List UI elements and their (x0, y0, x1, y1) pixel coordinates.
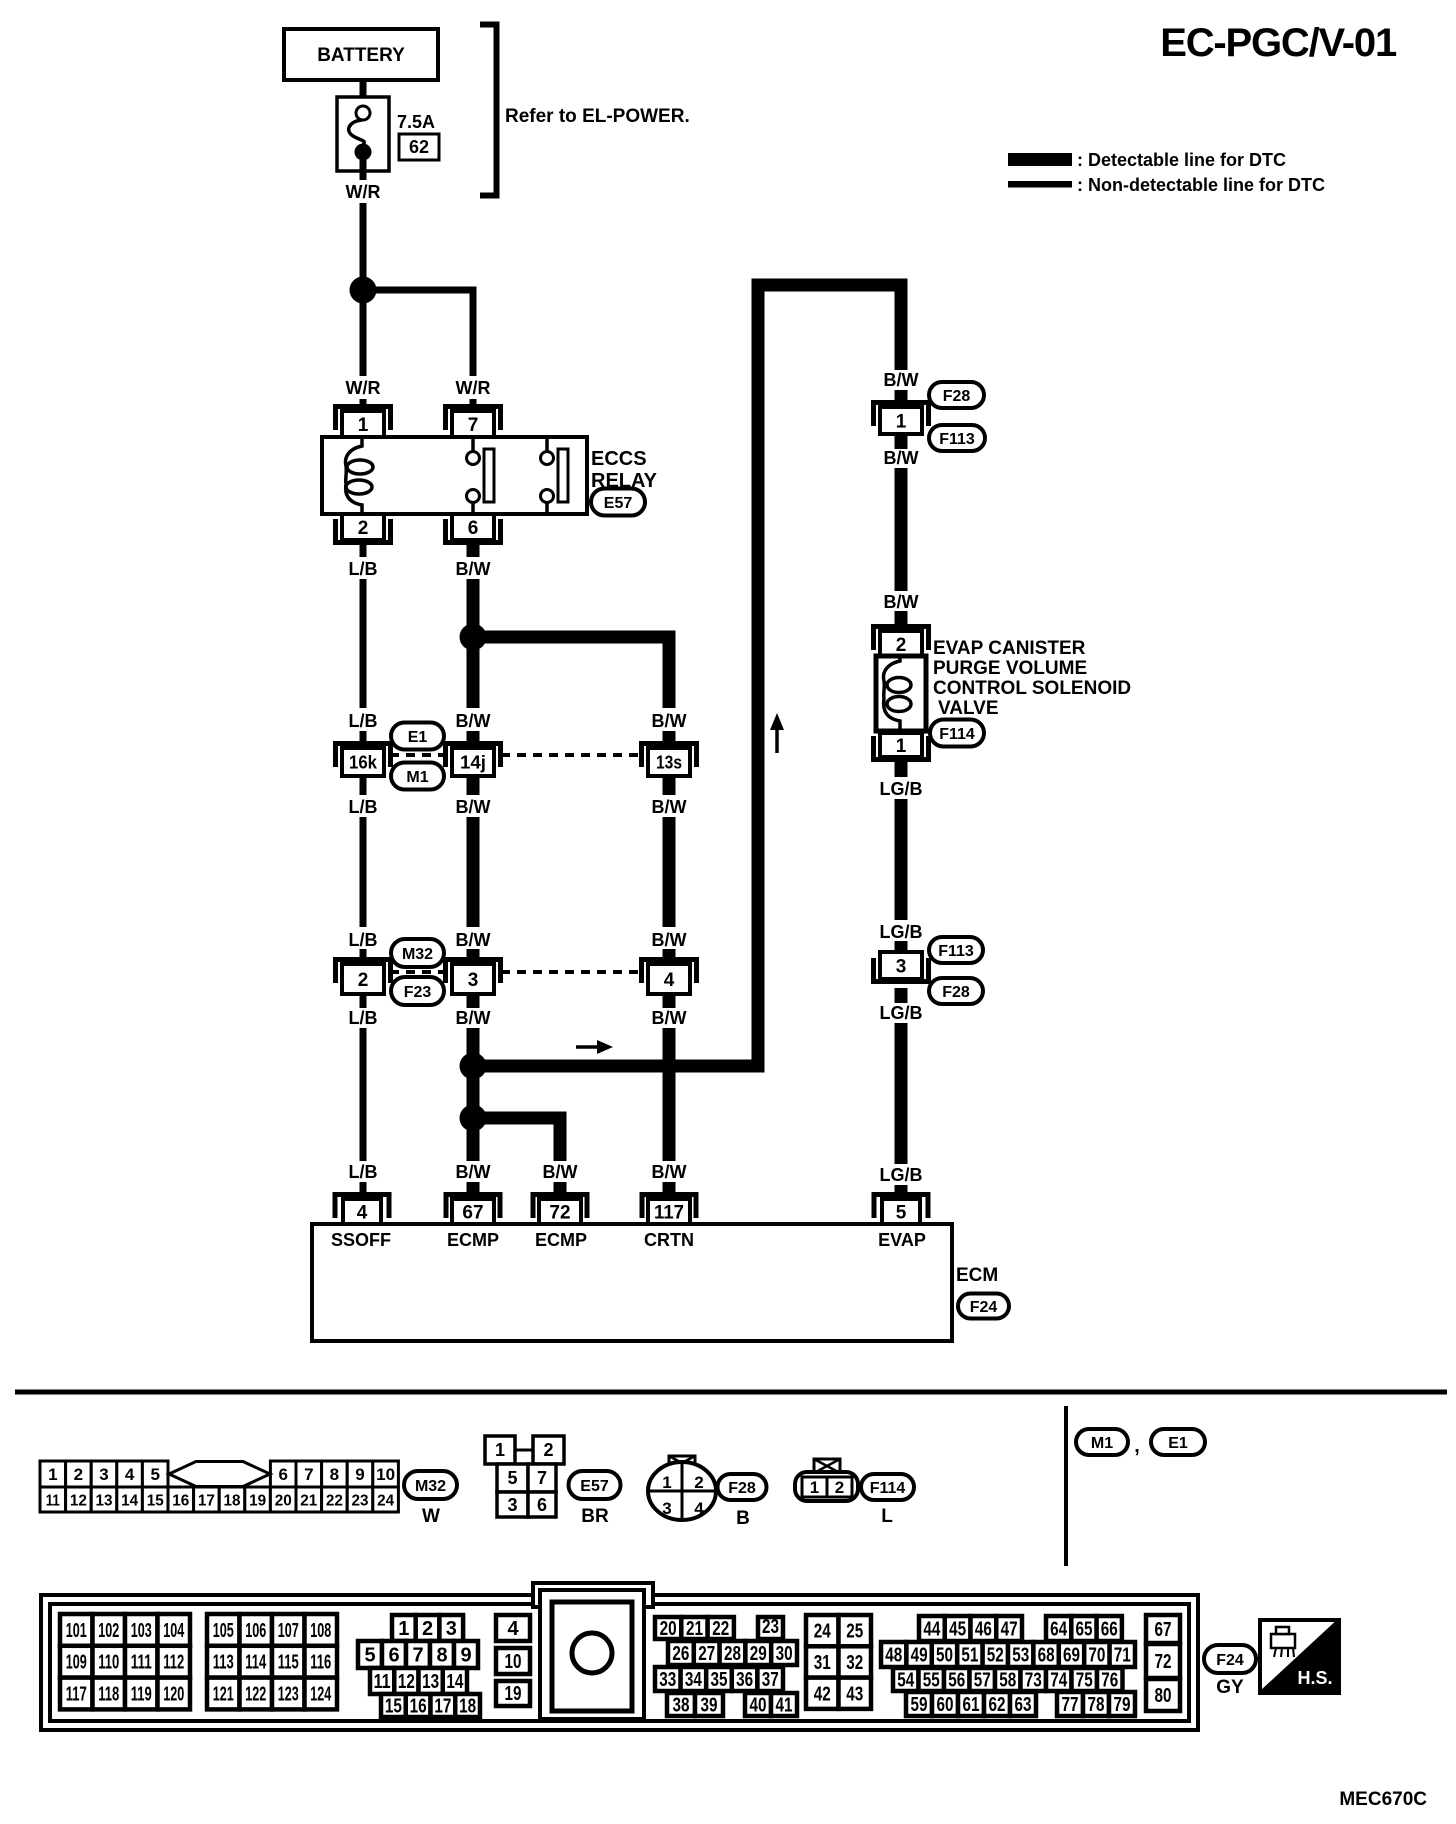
label B/W (884, 592, 919, 612)
svg-text:19: 19 (505, 1683, 522, 1705)
svg-text:21: 21 (300, 1493, 317, 1510)
arrow up on right loop (770, 713, 784, 753)
dashed line 16k to 14j (390, 753, 446, 757)
wire B/W long (467, 817, 480, 927)
svg-text:110: 110 (98, 1652, 119, 1674)
svg-text:36: 36 (736, 1669, 753, 1691)
svg-text:B/W: B/W (884, 592, 919, 612)
dashed line 14j to 13s (501, 753, 641, 757)
svg-text:B/W: B/W (456, 1008, 491, 1028)
svg-text:18: 18 (459, 1696, 476, 1718)
svg-text:102: 102 (98, 1620, 119, 1642)
svg-text:L/B: L/B (349, 559, 378, 579)
junction node B/W to ECMP 72 (460, 1105, 487, 1132)
oval M1 (391, 763, 444, 790)
svg-text:EVAP CANISTER: EVAP CANISTER (933, 638, 1086, 659)
svg-text:F113: F113 (939, 431, 975, 448)
label B/W (456, 930, 491, 950)
svg-text:104: 104 (163, 1620, 185, 1642)
label ECM (956, 1265, 998, 1286)
oval M1 bottom (1076, 1429, 1128, 1455)
svg-text:M32: M32 (415, 1478, 446, 1495)
connector pin 1 of ECCS relay (336, 407, 391, 438)
svg-text:H.S.: H.S. (1297, 1668, 1332, 1688)
wire B/W below junction (467, 1130, 480, 1161)
svg-text:SSOFF: SSOFF (331, 1230, 391, 1250)
svg-text:M1: M1 (1091, 1435, 1113, 1452)
label B/W (652, 711, 687, 731)
svg-text:2: 2 (835, 1478, 844, 1497)
svg-text:B/W: B/W (456, 930, 491, 950)
separator line (15, 1390, 1447, 1395)
svg-text:2: 2 (694, 1473, 703, 1492)
svg-text:56: 56 (948, 1670, 965, 1692)
svg-text:13: 13 (422, 1671, 439, 1693)
label B/W (652, 797, 687, 817)
label B/W (652, 1162, 687, 1182)
ECM face pin group 1-18 (358, 1615, 480, 1718)
wire L/B long (360, 817, 367, 927)
bracket refer to EL-POWER (480, 25, 690, 196)
svg-text:E1: E1 (1168, 1435, 1188, 1452)
svg-text:3: 3 (507, 1495, 517, 1515)
svg-text:F28: F28 (942, 984, 970, 1001)
wire battery to fuse (360, 78, 367, 108)
wire stub below 13s (663, 776, 676, 795)
label W (422, 1506, 440, 1527)
svg-text:B/W: B/W (884, 448, 919, 468)
svg-text:2: 2 (896, 635, 907, 656)
wire stub to connector 3 (895, 941, 908, 953)
dashed line 2 to 3 (390, 970, 446, 974)
connector face M32 (24-pin) (40, 1461, 398, 1512)
svg-text:72: 72 (1155, 1651, 1172, 1673)
comma (1134, 1435, 1140, 1457)
svg-text:116: 116 (310, 1652, 331, 1674)
svg-text:61: 61 (963, 1694, 980, 1716)
connector 2 M32/F23 (336, 960, 391, 995)
wire stub to 14j (467, 731, 480, 746)
oval F28 bottom (718, 1474, 767, 1500)
ECM face pin column 67/72/80 (1146, 1615, 1180, 1711)
label BR (581, 1506, 609, 1527)
svg-text:18: 18 (224, 1493, 241, 1510)
svg-text:L/B: L/B (349, 930, 378, 950)
svg-text:55: 55 (923, 1670, 940, 1692)
label LG/B (880, 1003, 923, 1023)
svg-text:GY: GY (1216, 1677, 1244, 1698)
svg-text:B/W: B/W (884, 370, 919, 390)
svg-text:47: 47 (1001, 1619, 1018, 1641)
connector 14j (446, 744, 501, 777)
svg-text:37: 37 (762, 1669, 779, 1691)
svg-text:38: 38 (673, 1695, 690, 1717)
wire W/R branch to relay pin 7 (370, 290, 473, 376)
svg-text:1: 1 (358, 415, 369, 436)
connector 1 F28/F113 (874, 403, 929, 435)
svg-text:F28: F28 (728, 1480, 756, 1497)
svg-text:119: 119 (131, 1684, 152, 1706)
svg-text:: Non-detectable line for DTC: : Non-detectable line for DTC (1077, 175, 1325, 195)
wire stub below connector 4 (663, 994, 676, 1008)
svg-text:,: , (1134, 1435, 1140, 1457)
svg-text:45: 45 (949, 1619, 966, 1641)
svg-text:77: 77 (1062, 1694, 1079, 1716)
svg-text:16k: 16k (349, 752, 378, 772)
wire stub below connector 3 (895, 988, 908, 1003)
svg-text:41: 41 (776, 1695, 793, 1717)
wire B/W loop right and up to solenoid feed (480, 285, 901, 1066)
svg-text:2: 2 (543, 1440, 553, 1460)
wire stub below connector 1 (895, 434, 908, 449)
svg-text:7.5A: 7.5A (397, 112, 435, 132)
label LG/B (880, 779, 923, 799)
label B/W (652, 1008, 687, 1028)
title EC-PGC/V-01 (1160, 21, 1397, 65)
svg-text:57: 57 (974, 1670, 991, 1692)
svg-text:7: 7 (537, 1468, 547, 1488)
svg-text:103: 103 (131, 1620, 152, 1642)
svg-text:EC-PGC/V-01: EC-PGC/V-01 (1160, 21, 1397, 65)
oval F24 (958, 1294, 1009, 1319)
svg-text:13: 13 (96, 1493, 113, 1510)
wire W/R to junction (360, 203, 367, 278)
label ECMP (447, 1230, 499, 1250)
svg-text:79: 79 (1114, 1694, 1131, 1716)
svg-text:107: 107 (278, 1620, 299, 1642)
svg-text:B/W: B/W (543, 1162, 578, 1182)
junction node B/W (460, 624, 487, 651)
svg-text:B/W: B/W (456, 797, 491, 817)
svg-text:8: 8 (436, 1645, 447, 1667)
svg-text:B/W: B/W (652, 1162, 687, 1182)
svg-text:1: 1 (398, 1618, 409, 1640)
svg-text:46: 46 (975, 1619, 992, 1641)
svg-text:63: 63 (1015, 1694, 1032, 1716)
wire B/W branch to 13s column (480, 637, 669, 708)
svg-text:21: 21 (686, 1618, 703, 1640)
svg-text:4: 4 (125, 1465, 135, 1484)
svg-text:7: 7 (468, 415, 479, 436)
oval F28 (929, 382, 984, 408)
ECCS relay E57 (322, 437, 587, 514)
dashed line 3 to 4 (501, 970, 641, 974)
label B (736, 1508, 750, 1529)
svg-text:B/W: B/W (456, 1162, 491, 1182)
svg-text:4: 4 (357, 1202, 368, 1223)
svg-text:1: 1 (896, 411, 907, 432)
label L/B (349, 1162, 378, 1182)
label L/B (349, 797, 378, 817)
wire stub to 13s (663, 731, 676, 746)
svg-text:64: 64 (1050, 1619, 1068, 1641)
svg-text:80: 80 (1155, 1685, 1172, 1707)
svg-text:65: 65 (1075, 1619, 1092, 1641)
label EVAP (878, 1230, 926, 1250)
wire stub to ECM pin 117 (663, 1182, 676, 1200)
svg-text:VALVE: VALVE (938, 698, 999, 719)
svg-text:5: 5 (507, 1468, 517, 1488)
svg-text:48: 48 (885, 1645, 902, 1667)
svg-text:114: 114 (245, 1652, 267, 1674)
svg-text:105: 105 (213, 1620, 234, 1642)
label LG/B (880, 922, 923, 942)
svg-text:F113: F113 (938, 943, 974, 960)
label ECCS RELAY (591, 448, 658, 492)
svg-text:3: 3 (468, 970, 479, 991)
svg-text:F24: F24 (970, 1299, 998, 1316)
fuse 7.5A 62 (337, 97, 439, 171)
svg-text:113: 113 (213, 1652, 234, 1674)
oval F113 (929, 425, 985, 451)
svg-text:50: 50 (936, 1645, 953, 1667)
ECM face pin group 24-43 (806, 1615, 871, 1709)
svg-text:B/W: B/W (456, 559, 491, 579)
connector pin 6 of ECCS relay (446, 514, 501, 543)
svg-text:ECM: ECM (956, 1265, 998, 1286)
oval F24 bottom (1204, 1645, 1256, 1673)
oval F114 bottom (861, 1474, 914, 1500)
svg-text:F114: F114 (870, 1480, 906, 1497)
svg-text:W/R: W/R (346, 378, 381, 398)
wire stub below connector 3 (467, 994, 480, 1008)
svg-text:44: 44 (923, 1619, 941, 1641)
svg-text:43: 43 (846, 1683, 863, 1705)
svg-text:W: W (422, 1506, 440, 1527)
svg-text:F24: F24 (1216, 1652, 1244, 1669)
svg-text:22: 22 (712, 1618, 729, 1640)
label B/W (543, 1162, 578, 1182)
wire stub below solenoid (895, 759, 908, 777)
svg-text:108: 108 (310, 1620, 331, 1642)
connector pin 7 of ECCS relay (446, 407, 501, 438)
wire stub below 14j (467, 776, 480, 795)
ECM pin 5 EVAP (874, 1195, 928, 1225)
wire stub to connector 4 (663, 949, 676, 963)
label L/B (349, 1008, 378, 1028)
svg-text:52: 52 (987, 1645, 1004, 1667)
wire L/B long to ECM (360, 1028, 367, 1161)
svg-text:12: 12 (398, 1671, 415, 1693)
junction node W/R (350, 277, 377, 304)
svg-text:121: 121 (213, 1684, 234, 1706)
svg-text:2: 2 (358, 970, 369, 991)
ECM face pin group 44-79 (881, 1616, 1135, 1716)
svg-text:W/R: W/R (346, 182, 381, 202)
svg-text:ECMP: ECMP (535, 1230, 587, 1250)
wire LG/B long (895, 799, 908, 920)
svg-text:E1: E1 (408, 729, 428, 746)
svg-text:32: 32 (846, 1652, 863, 1674)
svg-text:MEC670C: MEC670C (1339, 1789, 1427, 1810)
svg-text:L/B: L/B (349, 1008, 378, 1028)
svg-text:B/W: B/W (456, 711, 491, 731)
connector face F28 (round 4-pin) (648, 1456, 716, 1520)
oval E57 bottom (569, 1471, 621, 1499)
svg-text:3: 3 (99, 1465, 108, 1484)
label SSOFF (331, 1230, 391, 1250)
svg-text:7: 7 (412, 1645, 423, 1667)
wire stub to pin 7 (470, 399, 477, 412)
ECM face center module with circle (540, 1590, 644, 1719)
ECM face pin group 101-120 (60, 1614, 190, 1709)
wire B/W between junctions (467, 1078, 480, 1107)
wire stub to 16k (360, 731, 367, 746)
label L (881, 1506, 893, 1527)
svg-text:B/W: B/W (652, 1008, 687, 1028)
wire stub to ECM pin 4 (360, 1182, 367, 1200)
ECM pin 72 ECMP (533, 1195, 587, 1225)
battery (284, 29, 438, 80)
wire B/W to junction (467, 1028, 480, 1055)
wire B/W branch to ECM pin 72 (480, 1118, 560, 1161)
svg-text:6: 6 (468, 518, 479, 539)
svg-text:CONTROL SOLENOID: CONTROL SOLENOID (933, 678, 1131, 699)
connector 4 (642, 960, 697, 995)
svg-text:117: 117 (66, 1684, 87, 1706)
svg-text:W/R: W/R (456, 378, 491, 398)
svg-text:PURGE VOLUME: PURGE VOLUME (933, 658, 1087, 679)
svg-text:BATTERY: BATTERY (317, 45, 405, 66)
svg-text:75: 75 (1076, 1670, 1093, 1692)
wire stub to pin 1 (360, 399, 367, 412)
svg-text:27: 27 (698, 1643, 715, 1665)
svg-text:68: 68 (1038, 1645, 1055, 1667)
svg-text:31: 31 (814, 1652, 831, 1674)
label W/R below fuse (346, 182, 381, 202)
ECM pin 67 ECMP (446, 1195, 500, 1225)
label MEC670C (1339, 1789, 1427, 1810)
connector 13s (642, 744, 697, 777)
svg-text:F28: F28 (943, 388, 971, 405)
oval F28 lower (929, 978, 983, 1004)
svg-text:35: 35 (711, 1669, 728, 1691)
svg-text:: Detectable line for DTC: : Detectable line for DTC (1077, 150, 1286, 170)
label GY (1216, 1677, 1244, 1698)
svg-text:19: 19 (249, 1493, 266, 1510)
svg-text:15: 15 (385, 1696, 402, 1718)
svg-text:62: 62 (409, 137, 429, 157)
svg-text:51: 51 (961, 1645, 978, 1667)
label EVAP CANISTER PURGE VOLUME CONTROL SOLENOID VALVE (933, 638, 1131, 719)
svg-text:14: 14 (121, 1493, 138, 1510)
svg-text:LG/B: LG/B (880, 779, 923, 799)
wire LG/B long to ECM (895, 1023, 908, 1164)
svg-text:15: 15 (147, 1493, 164, 1510)
svg-text:70: 70 (1088, 1645, 1105, 1667)
svg-text:30: 30 (776, 1643, 793, 1665)
svg-text:39: 39 (701, 1695, 718, 1717)
svg-text:117: 117 (654, 1202, 684, 1223)
svg-text:3: 3 (446, 1618, 457, 1640)
svg-text:ECCS: ECCS (591, 448, 647, 470)
ECM connector face F24 outline (41, 1583, 1198, 1730)
junction node B/W to EVAP loop (460, 1053, 487, 1080)
svg-text:66: 66 (1101, 1619, 1118, 1641)
svg-text:M1: M1 (406, 769, 428, 786)
svg-text:109: 109 (66, 1652, 87, 1674)
svg-text:L/B: L/B (349, 1162, 378, 1182)
svg-text:14j: 14j (460, 752, 486, 772)
H.S. logo (1260, 1620, 1339, 1693)
oval M32 (391, 939, 444, 967)
label W/R left (346, 378, 381, 398)
svg-text:33: 33 (659, 1669, 676, 1691)
svg-text:74: 74 (1050, 1670, 1068, 1692)
svg-text:106: 106 (245, 1620, 266, 1642)
oval E1 bottom (1151, 1429, 1205, 1455)
svg-text:2: 2 (358, 518, 369, 539)
svg-text:E57: E57 (604, 495, 633, 512)
svg-text:60: 60 (937, 1694, 954, 1716)
connector 3 (446, 960, 501, 995)
label L/B (349, 559, 378, 579)
wire L/B below relay pin 2 (360, 545, 367, 557)
svg-text:23: 23 (762, 1616, 779, 1638)
svg-text:ECMP: ECMP (447, 1230, 499, 1250)
oval F113 lower (929, 937, 983, 963)
oval E1 (391, 723, 444, 750)
wire B/W 13s column long to ECM (663, 1028, 676, 1161)
svg-text:118: 118 (98, 1684, 119, 1706)
svg-text:4: 4 (664, 970, 675, 991)
svg-text:B/W: B/W (652, 930, 687, 950)
connector pin 2 of ECCS relay (336, 514, 391, 543)
svg-text:22: 22 (326, 1493, 343, 1510)
svg-text:111: 111 (131, 1652, 152, 1674)
wire B/W below relay pin 6 (467, 545, 480, 557)
svg-text:2: 2 (422, 1618, 433, 1640)
ECM face pin group 105-124 (207, 1614, 337, 1709)
svg-text:3: 3 (662, 1499, 671, 1518)
svg-text:24: 24 (814, 1621, 832, 1643)
svg-text:B/W: B/W (652, 711, 687, 731)
label B/W (456, 1008, 491, 1028)
label B/W (884, 448, 919, 468)
label B/W (456, 711, 491, 731)
divider line (1064, 1406, 1068, 1566)
wire B/W long (663, 817, 676, 927)
svg-text:24: 24 (377, 1493, 394, 1510)
svg-text:67: 67 (462, 1202, 483, 1223)
svg-text:58: 58 (999, 1670, 1016, 1692)
svg-text:115: 115 (278, 1652, 299, 1674)
svg-text:72: 72 (549, 1202, 570, 1223)
ECM pin 4 SSOFF (335, 1195, 389, 1225)
wire stub to ECM pin 67 (467, 1182, 480, 1200)
oval F114 (930, 720, 984, 747)
wire stub below 16k (360, 776, 367, 795)
svg-text:9: 9 (460, 1645, 471, 1667)
label B/W (456, 797, 491, 817)
svg-text:17: 17 (434, 1696, 451, 1718)
ECM face pin group 20-41 (655, 1616, 797, 1717)
wire B/W to junction (467, 579, 480, 626)
wire stub below connector 2 (360, 994, 367, 1008)
wire W/R junction to relay pin 1 (360, 302, 367, 376)
svg-text:101: 101 (66, 1620, 87, 1642)
svg-text:112: 112 (163, 1652, 184, 1674)
svg-text:76: 76 (1101, 1670, 1118, 1692)
svg-text:123: 123 (278, 1684, 299, 1706)
svg-text:6: 6 (388, 1645, 399, 1667)
svg-text:5: 5 (896, 1202, 907, 1223)
svg-text:20: 20 (660, 1618, 677, 1640)
svg-text:5: 5 (364, 1645, 375, 1667)
svg-text:28: 28 (724, 1643, 741, 1665)
svg-text:12: 12 (70, 1493, 87, 1510)
svg-text:16: 16 (410, 1696, 427, 1718)
